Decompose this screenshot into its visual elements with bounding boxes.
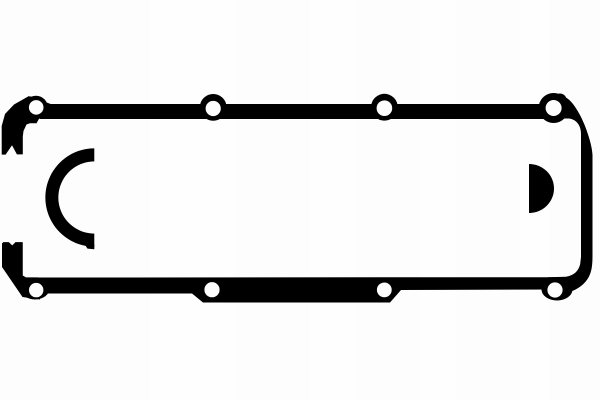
half-round plug seal (D piece)	[529, 164, 554, 213]
arc bottom tip chamfer	[84, 244, 94, 250]
boss bottom-left	[21, 278, 50, 300]
hole top-mid-right	[377, 100, 393, 116]
hole bottom-right	[547, 282, 562, 297]
hole bottom-mid-left	[204, 282, 219, 297]
hole bottom-mid-right	[377, 283, 392, 298]
bottom rail	[35, 277, 560, 302]
top rail	[40, 104, 548, 119]
boss top-left upper fillet	[30, 96, 52, 114]
boss top-left	[24, 96, 48, 120]
hole bottom-left	[29, 283, 43, 297]
faint scan banding	[150, 0, 550, 400]
hole top-right	[546, 100, 562, 116]
boss top-right	[539, 93, 569, 123]
boss top-mid-right	[371, 94, 398, 121]
tab bottom-left	[2, 242, 40, 299]
tab top-left	[2, 96, 40, 155]
boss top-right shoulder fill	[554, 94, 567, 107]
right rail with corners	[548, 95, 593, 295]
boss bottom-right	[542, 279, 573, 301]
hole top-mid-left	[206, 101, 221, 116]
hole top-left	[29, 100, 44, 115]
boss top-mid-left	[200, 94, 227, 121]
